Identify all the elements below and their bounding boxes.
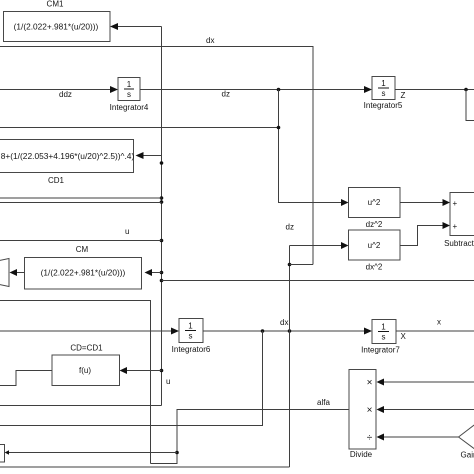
svg-text:dz: dz: [222, 90, 230, 99]
svg-text:u: u: [125, 227, 129, 236]
wire Z output of Integrator5: [395, 88, 474, 121]
junction u line to f(u): [160, 369, 164, 373]
wire f(u) output staircase: [0, 371, 52, 386]
svg-text:Integrator6: Integrator6: [172, 345, 211, 354]
junction on u line below CD1 tap: [160, 161, 164, 165]
wire x output of Integrator7: [396, 318, 474, 342]
wire dx into dx^2: [290, 242, 349, 249]
wire exit left y202: [0, 202, 162, 204]
block Gain: [459, 421, 474, 460]
svg-text:u: u: [166, 377, 170, 386]
wire dx bottom exit left y467: [0, 466, 290, 468]
svg-text:dz: dz: [286, 223, 294, 232]
wire alfa return to left y300: [0, 301, 151, 464]
svg-text:Divide: Divide: [350, 450, 373, 459]
svg-text:Subtract: Subtract: [444, 239, 474, 248]
junction dx verticals join: [288, 263, 292, 267]
block u^2 dz^2: [349, 188, 401, 230]
wire u into f(u): [120, 367, 171, 386]
svg-text:CD1: CD1: [48, 176, 65, 185]
wire u branch to right edge y280: [162, 280, 474, 282]
junction dz branch: [277, 88, 281, 92]
svg-text:Integrator4: Integrator4: [110, 103, 149, 112]
svg-text:(1/(2.022+.981*(u/20))): (1/(2.022+.981*(u/20))): [14, 21, 99, 31]
junction u line y202: [160, 200, 164, 204]
svg-text:Integrator5: Integrator5: [364, 101, 403, 110]
svg-text:×: ×: [367, 405, 373, 416]
block CD1: [0, 140, 134, 186]
integrator Integrator6: [172, 319, 211, 355]
svg-text:+: +: [453, 222, 458, 231]
svg-text:dx: dx: [280, 318, 288, 327]
wire Gain to Divide input 3: [377, 434, 459, 441]
wire ddz: [0, 86, 118, 99]
svg-text:CM: CM: [76, 245, 89, 254]
integrator Integrator4: [110, 78, 149, 113]
block Subtract: [444, 193, 474, 249]
svg-text:dx: dx: [206, 36, 214, 45]
svg-text:CD=CD1: CD=CD1: [70, 344, 103, 353]
svg-text:1: 1: [381, 323, 386, 332]
wire dx (Integrator6 to Integrator7): [203, 318, 372, 335]
junction u line y198: [160, 196, 164, 200]
svg-text:1: 1: [127, 80, 132, 89]
svg-text:s: s: [382, 89, 386, 98]
svg-text:s: s: [189, 332, 193, 341]
block u^2 dx^2: [349, 230, 401, 272]
svg-text:1: 1: [381, 79, 386, 88]
block CM: [25, 245, 142, 289]
block CM1: [4, 0, 111, 42]
integrator Integrator5: [364, 77, 403, 111]
junction u line to CM: [160, 271, 164, 275]
svg-text:Gain: Gain: [461, 451, 474, 460]
wire exit left y198: [0, 197, 162, 199]
svg-text:ddz: ddz: [59, 90, 72, 99]
wire exit left y127: [0, 127, 279, 129]
wire dx^2 to Subtract: [400, 222, 450, 246]
svg-text:dx^2: dx^2: [366, 263, 383, 272]
svg-text:f(u): f(u): [79, 366, 91, 375]
svg-text:s: s: [127, 90, 131, 99]
integrator Integrator7: [361, 320, 400, 355]
gain trapezoid left edge: [0, 259, 25, 287]
wire u entry left y405: [0, 405, 162, 407]
wire into Divide input 2: [377, 406, 474, 413]
u vertical line: [161, 27, 163, 406]
wire u exit left y240: [0, 227, 162, 241]
svg-text:×: ×: [367, 378, 373, 389]
wire dx top: [0, 36, 313, 265]
junction y127 line joins dz branch: [277, 126, 281, 130]
wire into Divide input 1: [377, 379, 474, 386]
wire u into CM: [145, 269, 162, 276]
svg-text:x: x: [437, 318, 441, 327]
svg-text:(1/(2.022+.981*(u/20))): (1/(2.022+.981*(u/20))): [41, 267, 126, 277]
svg-text:s: s: [382, 333, 386, 342]
wire alfa from Divide: [151, 398, 349, 464]
svg-text:÷: ÷: [367, 433, 373, 444]
wire ddx into Integrator6: [0, 328, 179, 335]
wire into CM1 from u line: [110, 23, 162, 30]
block f(u) CD=CD1: [52, 344, 120, 386]
wire dz down to dz^2: [279, 90, 342, 203]
junction u line y280 branch: [160, 279, 164, 283]
svg-text:dz^2: dz^2: [366, 220, 383, 229]
junction alfa branch to sink: [175, 451, 179, 455]
svg-text:u^2: u^2: [368, 198, 381, 207]
svg-text:alfa: alfa: [317, 398, 330, 407]
wire dz (Integrator4 to Integrator5): [140, 86, 372, 99]
wire dx vertical x289: [289, 246, 291, 468]
wire alfa branch to sink block: [8, 452, 177, 454]
svg-text:1: 1: [188, 322, 193, 331]
block Divide: [349, 370, 376, 460]
svg-text:X: X: [401, 332, 407, 341]
svg-text:u^2: u^2: [368, 241, 381, 250]
svg-text:CM1: CM1: [47, 0, 64, 9]
wire connect x313 to x289: [290, 264, 314, 266]
svg-text:Integrator7: Integrator7: [361, 346, 400, 355]
svg-text:+: +: [453, 199, 458, 208]
junction u line y240: [160, 239, 164, 243]
wire dx branch down to y425 exit: [0, 331, 263, 426]
wire into CD1: [136, 152, 162, 159]
block sink bottom-left: [0, 445, 5, 463]
wire dz^2 to Subtract: [400, 199, 450, 206]
svg-text:9.8+(1/(22.053+4.196*(u/20)^2.: 9.8+(1/(22.053+4.196*(u/20)^2.5))^.4): [0, 151, 134, 161]
svg-text:Z: Z: [401, 91, 406, 100]
